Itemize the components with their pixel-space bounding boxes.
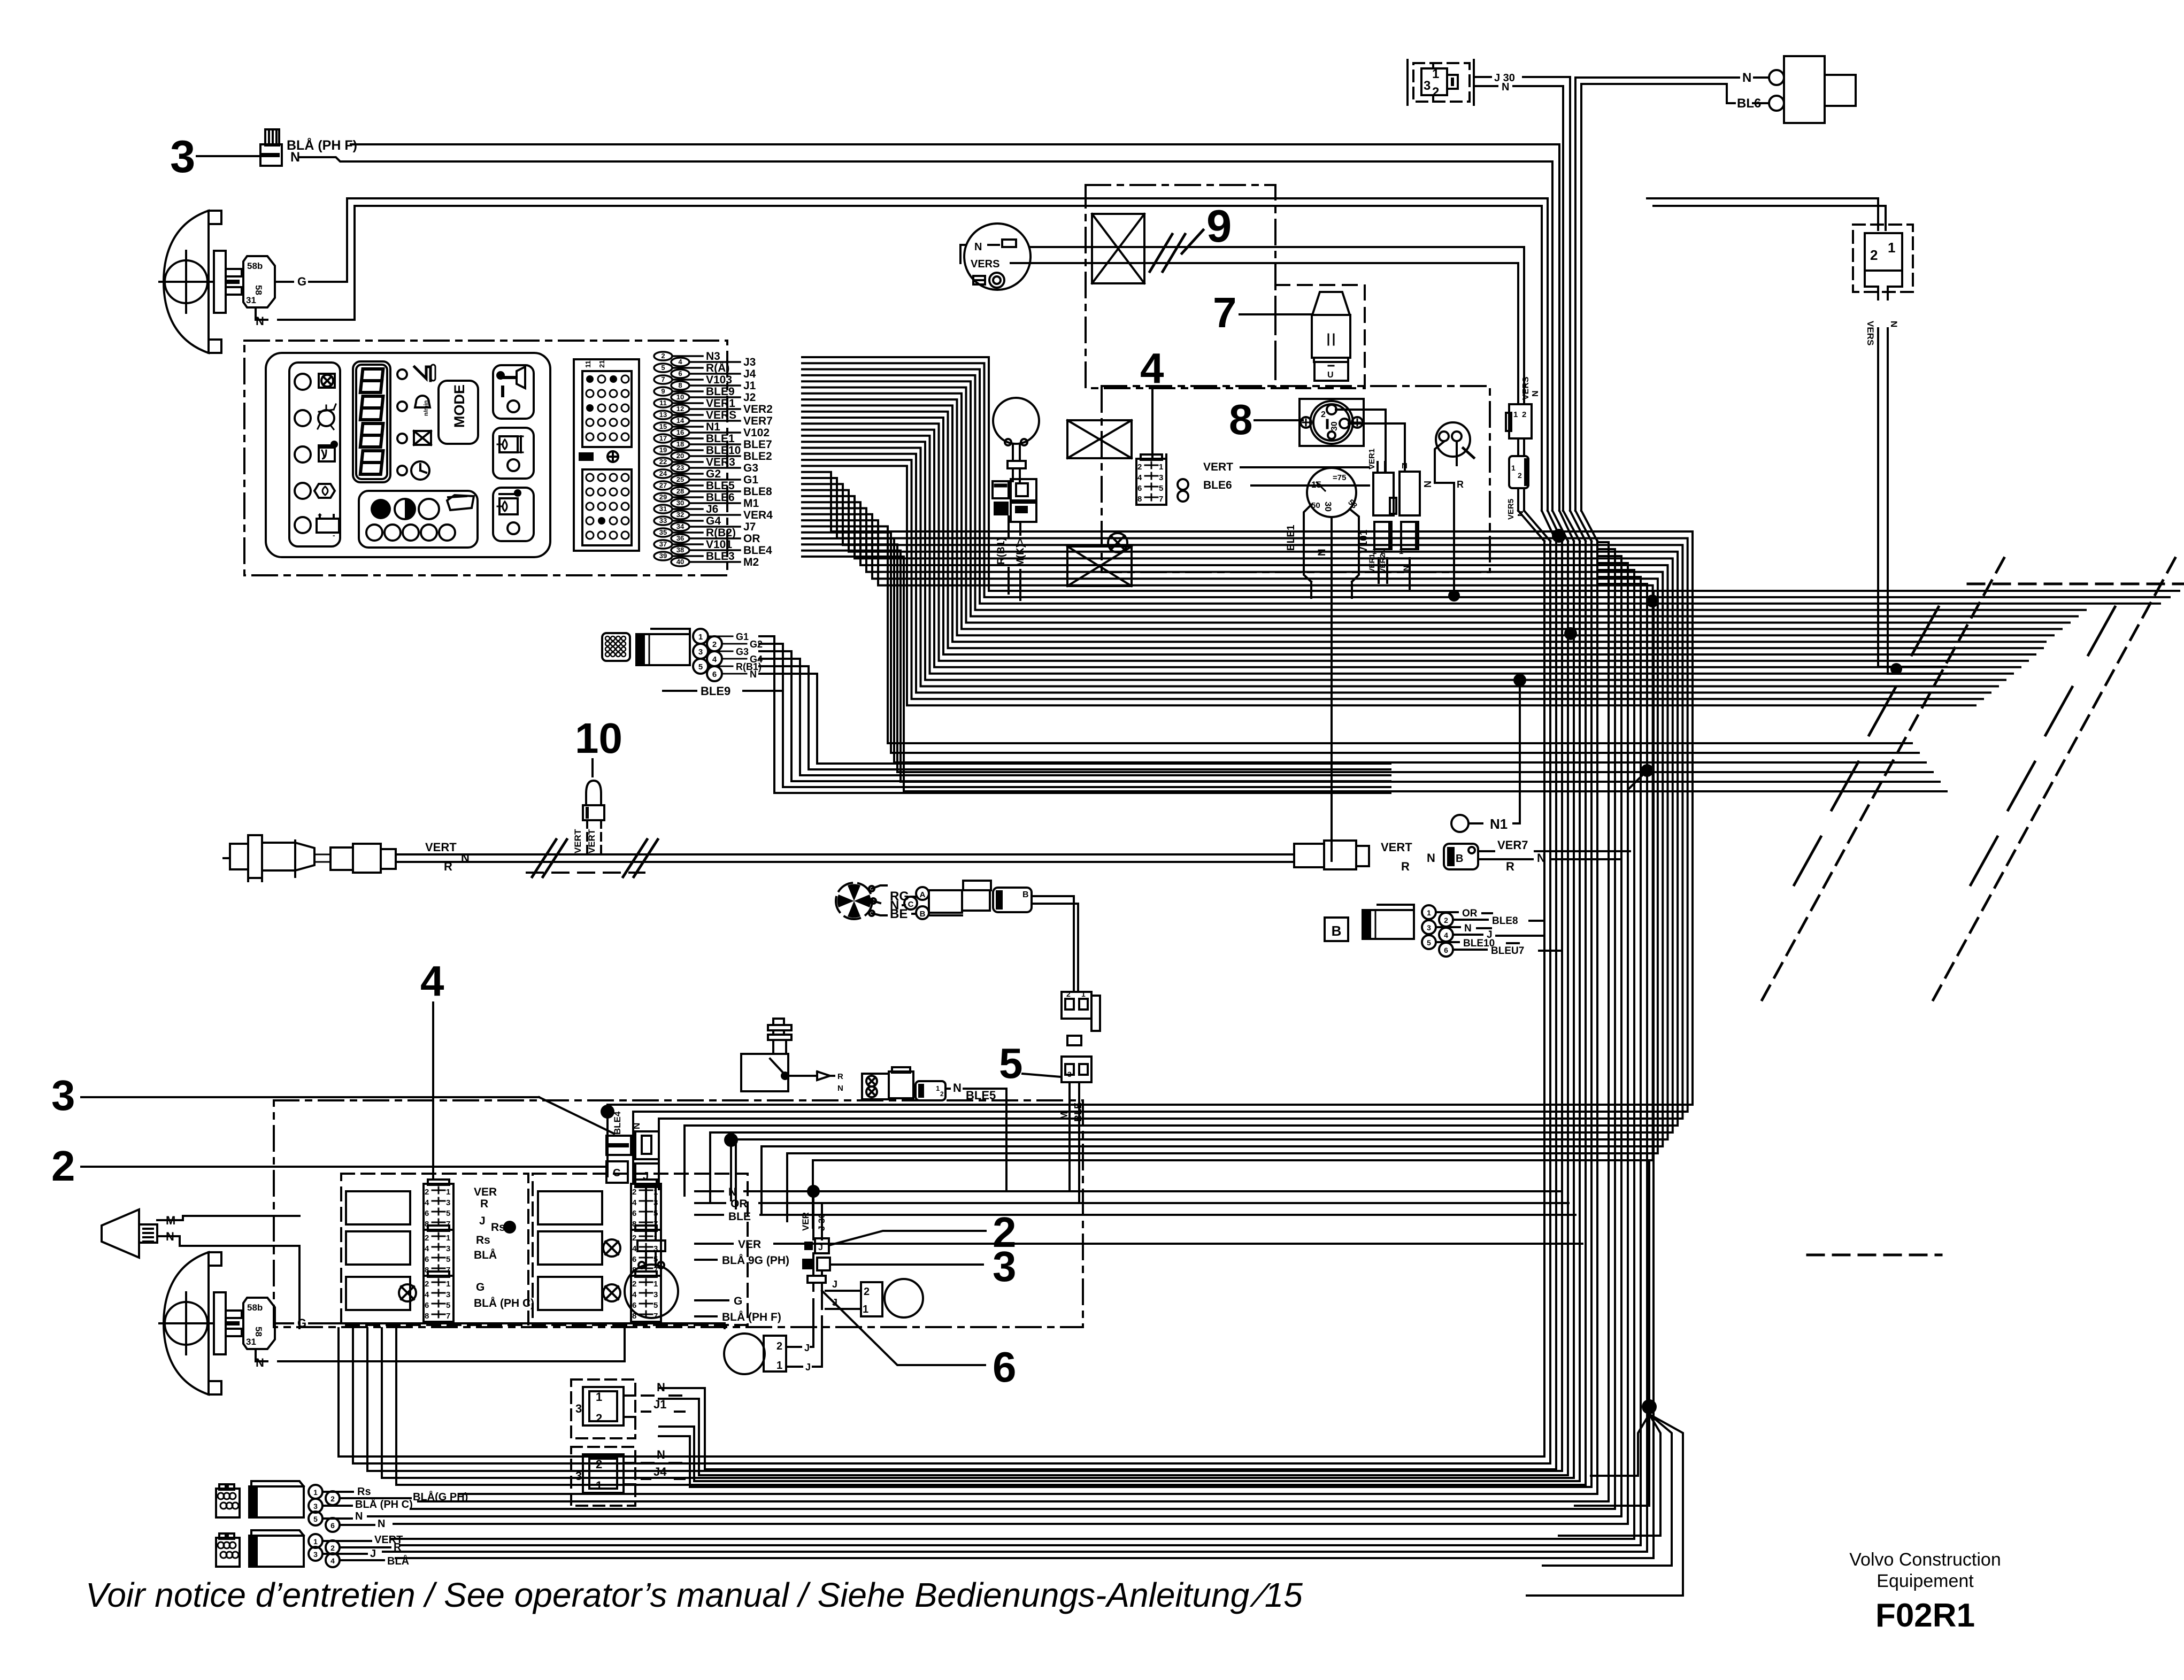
connector body K2 [1784, 56, 1856, 123]
cable connector left pair [330, 844, 396, 873]
svg-text:VERS: VERS [971, 258, 999, 270]
svg-text:3: 3 [993, 1243, 1017, 1290]
bottom group2 pins [309, 1534, 340, 1567]
leader 3 lower [81, 1097, 614, 1134]
svg-text:12: 12 [676, 405, 684, 413]
svg-text:5: 5 [313, 1515, 318, 1523]
svg-text:VER1: VER1 [1367, 553, 1376, 573]
svg-text:2: 2 [1870, 247, 1878, 263]
terminal N1 [1451, 680, 1520, 832]
svg-text:VER7: VER7 [743, 415, 773, 427]
sensor cable main [396, 854, 1294, 862]
wire BLA PH F long [351, 144, 1559, 511]
label 2 right leader [829, 1231, 986, 1245]
svg-text:N: N [256, 314, 264, 328]
svg-text:N: N [1317, 549, 1328, 556]
svg-text:20: 20 [676, 452, 684, 460]
x-box top [1092, 214, 1144, 283]
svg-text:VERS: VERS [706, 409, 736, 421]
svg-text:N1: N1 [1490, 816, 1508, 832]
svg-text:J: J [805, 1362, 811, 1373]
K1 pin labels [1424, 63, 1439, 102]
svg-text:VERT: VERT [425, 841, 457, 854]
svg-text:50: 50 [1311, 501, 1320, 510]
item 3 connector [802, 1258, 830, 1270]
fan lower connector [1062, 990, 1100, 1031]
svg-text:N1: N1 [706, 421, 720, 433]
label G stalk bottom [297, 1316, 306, 1330]
grid mid mark [579, 451, 618, 462]
svg-text:BE: BE [890, 907, 908, 921]
svg-text:2: 2 [940, 1090, 944, 1098]
svg-text:4: 4 [425, 1244, 429, 1253]
svg-text:6: 6 [712, 670, 717, 679]
connector K1 inner [1421, 68, 1458, 95]
wire N stalk bottom [256, 1328, 625, 1361]
svg-text:J: J [818, 1243, 823, 1252]
svg-text:VER5: VER5 [1506, 499, 1516, 520]
bottom group1 labels [355, 1486, 468, 1530]
svg-text:5: 5 [653, 1301, 658, 1310]
item 10 dashes down [587, 820, 601, 856]
svg-text:2: 2 [864, 1286, 870, 1298]
junction Rs [503, 1221, 516, 1234]
volvo block [1849, 1550, 2001, 1634]
svg-text:31: 31 [659, 505, 667, 513]
small circle 3 [403, 525, 419, 541]
svg-text:5: 5 [1159, 484, 1163, 493]
connector B6 labels [1436, 908, 1562, 957]
svg-text:BLE5: BLE5 [706, 480, 735, 492]
svg-text:BLÅ: BLÅ [474, 1249, 497, 1261]
svg-text:4: 4 [632, 1198, 637, 1207]
svg-text:6: 6 [1444, 946, 1448, 954]
svg-text:6: 6 [632, 1209, 636, 1218]
svg-text:4: 4 [425, 1290, 429, 1299]
pin circle K2-2 [1769, 96, 1784, 111]
item collar [808, 1253, 826, 1309]
svg-text:39: 39 [659, 552, 667, 560]
wire funnel [1518, 511, 1597, 541]
svg-text:1: 1 [1159, 463, 1163, 472]
svg-text:Volvo Construction: Volvo Construction [1849, 1550, 2001, 1570]
svg-text:1: 1 [653, 1188, 658, 1197]
svg-text:11: 11 [584, 360, 592, 368]
junction N1 top [1513, 674, 1526, 687]
svg-text:BLÅ (PH C): BLÅ (PH C) [474, 1297, 534, 1309]
small circle 5 [439, 525, 455, 541]
svg-text:25: 25 [676, 475, 684, 483]
svg-text:BLE1: BLE1 [1286, 525, 1297, 551]
wire BLE9 [663, 684, 781, 698]
svg-text:2: 2 [632, 1234, 636, 1243]
svg-text:1: 1 [1511, 464, 1516, 472]
svg-text:7: 7 [653, 1312, 658, 1321]
labels col L1 [474, 1186, 505, 1234]
item 2 connector [804, 1238, 829, 1253]
fan lower connector 2 [1062, 1057, 1091, 1082]
svg-text:7: 7 [1213, 289, 1237, 336]
svg-text:3: 3 [1067, 1070, 1072, 1078]
main wire bundle [607, 357, 2179, 1228]
svg-text:4: 4 [1137, 473, 1142, 482]
svg-text:J2: J2 [743, 391, 756, 404]
svg-text:5: 5 [653, 1209, 658, 1218]
svg-text:30: 30 [1330, 421, 1339, 431]
icon row D [397, 461, 429, 480]
labels col L3 [474, 1281, 534, 1309]
svg-text:3: 3 [446, 1198, 450, 1207]
svg-text:24: 24 [659, 469, 667, 477]
relay K-B2 [1399, 522, 1419, 556]
svg-text:J: J [479, 1215, 486, 1227]
svg-text:4: 4 [632, 1244, 637, 1253]
bottom group2 labels [370, 1534, 409, 1567]
grid labels top [584, 360, 606, 368]
svg-text:1: 1 [653, 1234, 658, 1243]
buzzer circle [1436, 422, 1474, 458]
svg-text:9: 9 [1206, 201, 1232, 252]
labels VER7 N R [1497, 838, 1545, 873]
wire K3 down A [1878, 328, 1947, 667]
fan pin dots [869, 886, 876, 916]
svg-text:C: C [908, 900, 914, 909]
fan mid piece [1067, 1036, 1081, 1045]
svg-text:10: 10 [575, 714, 622, 762]
svg-text:6: 6 [425, 1209, 429, 1218]
svg-text:19: 19 [659, 446, 667, 454]
svg-text:VER: VER [801, 1212, 811, 1231]
labels col R2 [695, 1238, 789, 1267]
svg-text:5: 5 [446, 1255, 450, 1264]
wire K1 drop N [1562, 86, 1564, 511]
svg-text:58: 58 [253, 1327, 264, 1337]
svg-text:BLE10: BLE10 [1463, 938, 1495, 949]
lamp symbol L [399, 1284, 416, 1301]
cable dashed underline [527, 872, 644, 874]
wire K1 J30 [1476, 72, 1570, 84]
svg-text:2: 2 [596, 1412, 602, 1425]
label G stalk top [297, 275, 306, 288]
MODE button [439, 381, 478, 444]
wires VER5 down [1518, 438, 1524, 511]
svg-text:VER2: VER2 [743, 403, 773, 415]
svg-text:OR: OR [1462, 908, 1478, 919]
label 2 lower [51, 1142, 75, 1190]
labels col R1 [695, 1186, 751, 1223]
labels VERT BLE6 top [1178, 461, 1233, 502]
relay A J labels [826, 1279, 860, 1309]
display digit 1 [360, 369, 383, 392]
svg-text:U: U [1327, 371, 1334, 380]
svg-text:2: 2 [776, 1340, 782, 1352]
svg-text:7: 7 [661, 375, 665, 383]
labels N BLE5 [953, 1081, 996, 1102]
connector B6 shell [1363, 905, 1414, 939]
svg-text:VERS: VERS [1521, 376, 1531, 400]
svg-text:G3: G3 [743, 462, 758, 474]
lamp engine box [1108, 533, 1127, 552]
K1 bracket left [1408, 60, 1474, 105]
svg-text:4: 4 [1444, 931, 1448, 939]
svg-text:BLÅ(G PH): BLÅ(G PH) [413, 1490, 468, 1503]
svg-text:58: 58 [253, 285, 264, 295]
svg-text:N: N [1502, 81, 1509, 93]
svg-text:2: 2 [425, 1188, 429, 1197]
svg-text:R(Å): R(Å) [706, 361, 729, 374]
svg-text:14: 14 [676, 417, 685, 425]
svg-text:R(B2): R(B2) [706, 527, 736, 539]
svg-text:31: 31 [246, 295, 256, 305]
svg-text:VERT: VERT [1381, 841, 1412, 854]
boxed B label [1325, 918, 1348, 941]
wires J4 right [659, 1427, 694, 1487]
svg-text:27: 27 [659, 481, 667, 489]
label 3 right leader [832, 1263, 983, 1266]
svg-text:1: 1 [446, 1188, 450, 1197]
circle open [419, 499, 439, 519]
label BL6 at lamp K2 [1737, 96, 1761, 111]
svg-text:6: 6 [1137, 484, 1142, 493]
icon row A [397, 365, 435, 381]
wire sender VERS long [1011, 263, 1518, 374]
svg-text:MODE: MODE [451, 384, 467, 428]
label 6 leader [822, 1291, 985, 1365]
svg-text:2: 2 [712, 640, 717, 649]
connector J4 [571, 1447, 635, 1506]
svg-text:G: G [297, 275, 306, 288]
hourmeter connector [993, 479, 1036, 522]
warning row 3 [295, 442, 337, 463]
connector VER7 [1444, 844, 1478, 869]
svg-text:VER: VER [474, 1186, 497, 1198]
relay box R3 [538, 1277, 602, 1310]
svg-text:29: 29 [659, 493, 667, 501]
cable hatch 1 [532, 839, 567, 877]
svg-text:3: 3 [1424, 79, 1431, 93]
svg-text:VERT: VERT [1203, 461, 1233, 473]
svg-text:G3: G3 [736, 646, 749, 657]
junction mid dots [1564, 595, 1659, 789]
label 7 [1213, 289, 1237, 336]
svg-text:2: 2 [425, 1280, 429, 1289]
inner dashed box right [533, 1174, 748, 1325]
svg-text:1: 1 [313, 1537, 318, 1546]
svg-text:VER4: VER4 [743, 509, 773, 521]
label 10 [575, 714, 622, 762]
lamp symbol R1 [603, 1239, 620, 1257]
svg-text:2: 2 [330, 1544, 335, 1552]
label 6 [993, 1343, 1017, 1391]
svg-text:3: 3 [170, 132, 195, 182]
svg-text:7: 7 [1159, 495, 1163, 504]
connector col L1 [424, 1180, 453, 1230]
svg-text:G: G [297, 1316, 306, 1330]
svg-text:3: 3 [653, 1198, 658, 1207]
label N stalk bottom [256, 1356, 264, 1369]
wire pair to K3 A [1647, 198, 1878, 230]
pressure wedge [788, 1072, 843, 1093]
label 3 top-left [170, 132, 195, 182]
relay K-A2 [1399, 461, 1420, 515]
svg-text:BLE8: BLE8 [743, 485, 772, 498]
relay K-A1 [1367, 449, 1396, 515]
svg-text:8: 8 [1137, 495, 1142, 504]
svg-text:33: 33 [659, 517, 667, 525]
leader 8 [1255, 419, 1303, 421]
wire K1 drop J30 [1569, 77, 1571, 511]
svg-text:6: 6 [632, 1255, 636, 1264]
label N stalk top [256, 314, 264, 328]
svg-text:BLE4: BLE4 [612, 1111, 622, 1135]
instrument panel outline [266, 353, 550, 557]
svg-text:J7: J7 [743, 521, 756, 533]
svg-text:VERS: VERS [1865, 321, 1875, 345]
svg-text:5: 5 [661, 364, 665, 372]
svg-text:5: 5 [446, 1301, 450, 1310]
hourmeter stem [1008, 445, 1026, 481]
svg-text:J1: J1 [743, 380, 756, 392]
svg-text:1: 1 [313, 1488, 318, 1497]
warning row 1 [295, 374, 335, 390]
svg-text:B: B [1456, 853, 1463, 865]
G-pin staircase wires [759, 636, 1390, 793]
svg-text:5: 5 [1427, 938, 1431, 947]
fan connector 2 [993, 888, 1032, 912]
svg-text:BLE9: BLE9 [701, 684, 730, 698]
bottom group1 pins [309, 1485, 340, 1532]
svg-text:32: 32 [676, 511, 684, 519]
warning row 5 [295, 511, 339, 540]
svg-text:R: R [1457, 479, 1464, 490]
svg-text:J4: J4 [743, 368, 756, 380]
sender dashed box 7 [1275, 285, 1365, 388]
wire G stalk top [275, 198, 347, 282]
svg-text:V101: V101 [1358, 529, 1370, 553]
svg-text:6: 6 [425, 1255, 429, 1264]
icon row B [397, 396, 430, 416]
svg-text:M2: M2 [743, 556, 759, 568]
sender circle top [964, 224, 1031, 290]
svg-text:1: 1 [1513, 410, 1518, 419]
labels VERS N below K3 [1865, 321, 1899, 345]
dashed horizontal bottom right [1808, 1254, 1941, 1257]
bottom connector group 1 [216, 1481, 304, 1517]
pressure switch box [741, 1054, 789, 1091]
svg-text:N: N [657, 1448, 665, 1461]
svg-text:VERT: VERT [587, 829, 597, 853]
svg-text:2: 2 [51, 1142, 75, 1190]
svg-text:VERT: VERT [573, 829, 583, 853]
wires ignition drop [1311, 564, 1352, 861]
svg-text:5: 5 [999, 1039, 1023, 1087]
svg-text:R: R [480, 1198, 488, 1210]
svg-text:6: 6 [678, 369, 682, 377]
buzzer wires [1435, 442, 1457, 596]
connector col L2 [424, 1226, 453, 1276]
lower big dash-dot box [274, 1100, 1083, 1327]
svg-text:6: 6 [330, 1521, 335, 1530]
svg-text:8: 8 [632, 1312, 636, 1321]
svg-text:1: 1 [698, 633, 703, 642]
svg-text:N: N [1742, 71, 1751, 85]
lower connector pair [606, 1131, 659, 1187]
svg-text:4: 4 [330, 1556, 335, 1565]
svg-text:4: 4 [632, 1290, 637, 1299]
svg-text:15: 15 [659, 422, 667, 430]
instrument pin list [654, 350, 773, 568]
svg-text:N: N [953, 1081, 962, 1095]
svg-text:11: 11 [659, 399, 667, 407]
svg-text:N: N [1464, 923, 1472, 934]
label BLA PH F [287, 137, 357, 153]
label 4 top [1140, 344, 1164, 392]
svg-text:BLE6: BLE6 [1203, 479, 1232, 491]
ignition wires down [1286, 505, 1370, 582]
svg-text:R(B1): R(B1) [996, 537, 1007, 565]
lamp symbol R2 [603, 1284, 620, 1301]
svg-text:BLE4: BLE4 [743, 544, 772, 557]
svg-text:BLE2: BLE2 [743, 450, 772, 463]
svg-text:BLE10: BLE10 [706, 444, 741, 457]
svg-text:B: B [1022, 890, 1029, 899]
connector col R2 [631, 1226, 661, 1276]
engine dash-dot box upper [1086, 185, 1275, 388]
svg-text:6: 6 [632, 1301, 636, 1310]
connector item3 top [260, 129, 282, 166]
wire K2 N left [1575, 78, 1739, 511]
warning light column [289, 363, 340, 546]
svg-text:2: 2 [632, 1280, 636, 1289]
svg-text:6: 6 [425, 1301, 429, 1310]
junction VER [807, 1185, 820, 1198]
svg-text:30: 30 [676, 499, 684, 507]
svg-text:V102: V102 [743, 427, 770, 439]
svg-text:R: R [394, 1542, 402, 1553]
svg-text:G: G [734, 1295, 742, 1307]
svg-text:G4: G4 [706, 515, 721, 527]
svg-text:31: 31 [246, 1337, 256, 1347]
bulb circle [625, 1262, 678, 1318]
svg-text:J: J [832, 1279, 837, 1290]
svg-text:BLE6: BLE6 [706, 491, 735, 504]
relay box R2 [538, 1231, 602, 1265]
label 9 [1206, 201, 1232, 252]
svg-text:1: 1 [653, 1280, 658, 1289]
svg-text:BLÅ (PH C): BLÅ (PH C) [355, 1498, 413, 1511]
x-box mid [1067, 420, 1132, 458]
svg-text:6: 6 [993, 1343, 1017, 1391]
pressure connector B [916, 1081, 945, 1100]
warning row 2 [295, 404, 336, 429]
cable crossing ticks [1794, 607, 2115, 885]
svg-text:VER7: VER7 [1497, 838, 1528, 852]
circles block [359, 491, 478, 548]
bottom group2 stubs [323, 1541, 390, 1560]
label 9 leader [1182, 230, 1203, 253]
svg-text:VER1: VER1 [1367, 449, 1376, 469]
wires VER7 right [1478, 851, 1630, 859]
connector col R1 [631, 1180, 661, 1230]
wire fan right [1597, 542, 1654, 591]
svg-text:N: N [1537, 851, 1545, 865]
small circle 4 [421, 525, 437, 541]
bottom group1 stubs [323, 1492, 411, 1525]
svg-text:G1: G1 [736, 631, 749, 642]
svg-text:1: 1 [1399, 547, 1403, 556]
instrument box dash-dot [244, 341, 727, 575]
connector K3 inner [1865, 233, 1902, 271]
